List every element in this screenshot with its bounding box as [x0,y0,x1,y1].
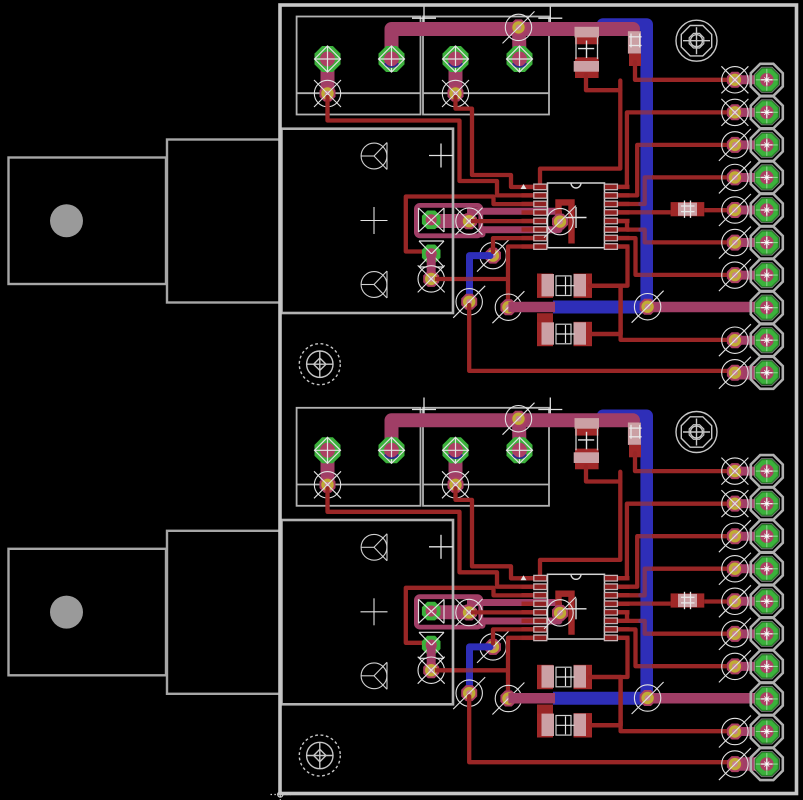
terminal block X1A outline [297,17,421,115]
clip symbol bottom 2 [361,663,387,689]
wire via-pad row9 [735,336,755,345]
wire C1 stub down [537,313,553,322]
via inside U2 [544,594,576,635]
wire U pin2R to row3 [617,536,640,587]
wire blue mid horizontal [553,301,648,314]
wire U pin1R to row2 [617,504,640,578]
board origin marker [271,784,292,800]
wire via-pad row10 [735,760,755,769]
wire U pin3R to row4 [617,593,641,597]
connector J2 center hole [50,596,83,629]
via blue junction [640,299,656,315]
pin 16R of U1 [604,184,629,190]
pad JP1-4 [751,161,783,193]
wire V1 to U pin5 [471,219,534,223]
wire row6 right [652,240,733,244]
wire pink band to U pin6 [482,230,559,234]
wire pink band pin4 corner [555,603,562,611]
connector J1 center hole [50,204,83,237]
terminal block X1B origin cross [538,17,562,19]
wire pink band to U pin6 [482,621,559,625]
pin 13R of U1 [604,210,629,216]
wire R left feed [617,601,641,605]
pin 12R of U1 [604,218,629,224]
wire V2 to V5 [435,668,508,672]
via top right [511,411,527,427]
pin 14R of U1 [604,201,629,207]
via V5 [500,299,516,315]
terminal block X2B outline [423,408,549,506]
module 2 [282,398,783,781]
wire blue mid horizontal [553,692,648,705]
terminal block X1B outline [423,17,549,115]
pad X1A-2 [378,46,405,73]
wire via-pad row3 [735,140,755,149]
wire ring around G1 [416,597,480,627]
connector J1 [9,140,281,303]
pad G2 bowtie [419,241,444,267]
wire U pin8R to caps [617,638,628,677]
wire U pin7R to row7 [617,629,640,666]
wire V2 blend crossing [466,668,473,672]
wire row3 right [652,534,733,538]
pad JP2-5 [751,585,783,617]
pin 1L of U2 [522,575,547,581]
pad JP2-2 [751,488,783,520]
clip symbol top 1 [361,143,387,169]
capacitor C1 [537,665,592,689]
wire vert x620 [540,81,620,185]
wire row7 blend [640,273,653,277]
via row4 [727,169,743,185]
pin 10R of U2 [604,627,629,633]
pin 3L of U2 [522,592,547,598]
wire SMD2 to row1 [635,62,640,80]
via blue junction [640,690,656,706]
wire via2 to U pin1 [456,488,535,578]
wire caps right join [590,286,621,334]
wire blue top horizontal [599,20,642,30]
wire via-pad row2 [735,499,755,508]
clip symbol bottom 1 [361,272,387,298]
pad X2B-2 [506,437,533,464]
pad G1 [422,602,441,621]
wire thick pad4-via [512,29,527,59]
connector J2 inner shell [167,531,280,694]
name marker U2 [521,575,527,580]
via top right [511,19,527,35]
via row1 [727,463,743,479]
origin cross U1 [566,217,587,219]
wire V1 to U pin5 [471,610,534,614]
wire SMD2 to row1 [635,453,640,471]
wire row2 blend [640,502,653,506]
via row10 [727,365,743,381]
pad JP2-3 [751,520,783,552]
via row3 [727,528,743,544]
pad JP1-8 [751,292,783,324]
pad JP2-8 [751,683,783,715]
wire U pin2R to row3 [617,145,640,196]
wire row4 right [652,567,733,571]
via row9 [727,724,743,740]
wire thick V5 right [508,302,555,313]
via row5 [727,202,743,218]
wire U pin5R to row6 [617,612,640,621]
clip symbol top 2 [361,534,387,560]
wire R to via row5 [704,208,733,212]
pad JP1-1 [751,64,783,96]
wire G2 loop to U pin3 [406,197,534,252]
wire R to via row5 [704,599,733,603]
resistor SMD1 [574,418,599,469]
pad X1B-2 [506,46,533,73]
wire V5 to U pin8 [508,247,534,308]
wire row2 right [652,502,733,506]
wire via-pad row4 [735,564,755,573]
pad X2A-1 [315,437,341,463]
pin 5L of U2 [522,609,547,615]
wire blue vertical [603,25,647,307]
via V1 [461,213,477,229]
mounting hole bottom-left [299,735,340,776]
pad X1B-1 [442,46,469,73]
pin 11R of U2 [604,618,629,624]
wire U pin1R to row2 [617,112,640,186]
via row2 [727,104,743,120]
wire row4 blend [640,177,653,204]
connector J1 inner shell [167,140,280,303]
wire thick pink mid right [648,693,767,704]
pin 8L of U1 [522,244,547,250]
pin 9R of U1 [604,244,629,250]
wire blue V3-V4 [470,256,491,302]
via row7 [727,267,743,283]
wire via-pad row4 [735,173,755,182]
wire R feed blend [640,601,653,605]
wire row7 blend [640,664,653,668]
wire row1 right [652,78,733,82]
wire V2 blend crossing [466,277,473,281]
wire U pin8R to caps [617,247,628,286]
pad JP2-7 [751,650,783,682]
wire U pin7R to row7 [617,238,640,275]
board outline [280,5,797,794]
wire via-pad row7 [735,662,755,671]
wire row1 blend [640,469,653,473]
wire thick pad4-via [512,420,527,450]
connector J2 [9,531,281,694]
pin 2L of U2 [522,584,547,590]
pin 7L of U1 [522,235,547,241]
wire via-pad row6 [735,629,755,638]
wire caps to pad row9 [621,330,733,340]
pad G2 [422,636,441,655]
wire thick pad3-via2 [449,450,463,485]
resistor SMD2 [628,423,642,458]
pad JP1-7 [751,259,783,291]
terminal block X1A origin cross [412,17,436,19]
wire via-pad row10 [735,368,755,377]
capacitor C2 [537,713,592,737]
wire row1 blend [640,78,653,82]
wire via-pad row9 [735,727,755,736]
pad JP2-4 [751,553,783,585]
via row4 [727,561,743,577]
wire thick pink mid right [648,302,767,313]
wire thick pad3-via2 [449,59,463,94]
origin cross small 2 [429,546,453,548]
via V2 [423,271,439,287]
op-amp U1 body [548,183,605,248]
pad JP1-3 [751,129,783,161]
pad JP1-9 [751,324,783,356]
wire thick row10 [735,757,767,771]
pin 6L of U1 [522,227,547,233]
wire SMD1 down [586,466,620,481]
capacitor C2 [537,322,592,346]
wire R feed blend [640,210,653,214]
resistor SMD2 [628,31,642,66]
via row6 [727,235,743,251]
wire G1 to via V1 [431,605,469,619]
wire V4 to pad row10 [469,305,733,371]
component area outline 1 [282,129,454,313]
via V1 [461,605,477,621]
wire via-pad row5 [735,597,755,606]
wire R feed right [652,601,671,605]
wire thick V5 right [508,693,555,704]
component area outline 2 [282,520,454,704]
wire row7 right [652,273,733,277]
pad JP1-6 [751,227,783,259]
wire thick pad2 up [392,29,634,59]
pin 13R of U2 [604,601,629,607]
wire V4 to pad row10 [469,696,733,762]
wire via-pad row6 [735,238,755,247]
pad G2 bowtie [419,632,444,658]
wire blue V3-V4 [470,647,491,693]
origin cross small 1 [429,155,453,157]
mounting hole top-right [676,20,717,61]
pin 4L of U1 [522,210,547,216]
pad G1 bowtie [419,599,445,623]
terminal block X2A origin cross [412,409,436,411]
resistor R [671,592,705,609]
origin cross U2 [566,608,587,610]
name marker U1 [521,184,527,189]
pad G1 bowtie [419,208,445,232]
wire thick row10 [735,366,767,380]
wire row2 right [652,110,733,114]
via inside U1 [544,202,576,243]
pin 4L of U2 [522,601,547,607]
via V2 [423,662,439,678]
wire G2 loop to U pin3 [406,588,534,643]
wire row4 right [652,175,733,179]
wire row4 blend [640,569,653,596]
wire row7 right [652,664,733,668]
via V5 [500,691,516,707]
pad X2B-1 [442,437,469,464]
capacitor C1 [537,274,592,298]
pad JP1-2 [751,96,783,128]
pin 8L of U2 [522,635,547,641]
wire via-pad row2 [735,108,755,117]
wire V3 to U pin7 [493,629,534,643]
via row2 [727,496,743,512]
via row9 [727,332,743,348]
via under pad1 [320,86,336,102]
via row7 [727,658,743,674]
wire via-pad row3 [735,532,755,541]
origin cross area 2 [361,611,388,613]
resistor SMD1 [574,27,599,78]
wire pink band to U pin4 [467,599,561,606]
wire V2 to V5 [435,277,508,281]
wire via-pad row5 [735,206,755,215]
via V4 [461,294,477,310]
wire via2 to U pin1 [456,97,535,187]
wire ring around G1 [416,205,480,235]
wire R feed right [652,210,671,214]
wire V5 to U pin8 [508,638,534,699]
pin 11R of U1 [604,227,629,233]
wire via1 to U pin2 [328,488,535,586]
wire SMD1 down [586,75,620,90]
pin 15R of U2 [604,584,629,590]
wire thick pad1-via1 [321,450,335,485]
wire G2 to via V2 [427,645,436,670]
pin 16R of U2 [604,575,629,581]
wire C1 stub down [537,705,553,714]
wire via-pad row7 [735,271,755,280]
pin 12R of U2 [604,609,629,615]
wire R left feed [617,210,641,214]
via row5 [727,593,743,609]
wire U pin5R to row6 [617,221,640,230]
wire row6 blend [640,621,653,634]
wire row3 blend [640,534,653,538]
connector J2 outer shell [9,549,167,676]
wire via1 to U pin2 [328,97,535,195]
pad JP2-9 [751,716,783,748]
origin cross area 1 [361,220,388,222]
pin 9R of U2 [604,635,629,641]
wire V3 to U pin7 [493,238,534,252]
via row10 [727,756,743,772]
wire row1 right [652,469,733,473]
pin 6L of U2 [522,618,547,624]
pad JP2-10 [751,748,783,780]
wire blue vertical [603,416,647,698]
op-amp U2 body [548,574,605,639]
terminal block X2B origin cross [538,409,562,411]
wire row6 blend [640,230,653,243]
pin 5L of U1 [522,218,547,224]
via row1 [727,72,743,88]
via V3 [485,248,501,264]
via under pad1 [320,477,336,493]
via V3 [485,639,501,655]
wire row6 right [652,632,733,636]
pad JP1-5 [751,194,783,226]
wire via-pad row1 [735,75,755,84]
wire blue top horizontal [599,411,642,421]
pad JP1-10 [751,357,783,389]
via under pad3 [448,86,464,102]
wire thick pad1-via1 [321,59,335,94]
wire caps right join [590,677,621,725]
terminal block X2A outline [297,408,421,506]
wire row3 blend [640,143,653,147]
pin 2L of U1 [522,193,547,199]
via row6 [727,626,743,642]
pad G2 [422,245,441,264]
wire via-pad row1 [735,467,755,476]
wire vert x620 [540,472,620,576]
via row3 [727,137,743,153]
pin 7L of U2 [522,627,547,633]
mounting hole top-right [676,412,717,453]
pin 14R of U2 [604,592,629,598]
pad X2A-2 [378,437,405,464]
wire pink band to U pin4 [467,208,561,215]
connector J1 outer shell [9,158,167,285]
pin 1L of U1 [522,184,547,190]
wire row3 right [652,143,733,147]
wire caps to pad row9 [621,721,733,731]
wire pink band pin4 corner [555,211,562,219]
pad G1 [422,211,441,230]
pin 15R of U1 [604,193,629,199]
pad X1A-1 [315,46,341,72]
pin 10R of U1 [604,235,629,241]
wire U pin3R to row4 [617,202,641,206]
wire row2 blend [640,110,653,114]
mounting hole bottom-left [299,344,340,385]
pad JP2-1 [751,455,783,487]
pin 3L of U1 [522,201,547,207]
wire thick pad2 up [392,420,634,450]
pad JP2-6 [751,618,783,650]
via under pad3 [448,477,464,493]
wire G2 to via V2 [427,254,436,279]
resistor R [671,201,705,218]
wire G1 to via V1 [431,214,469,228]
module 1 [282,6,783,389]
via V4 [461,685,477,701]
